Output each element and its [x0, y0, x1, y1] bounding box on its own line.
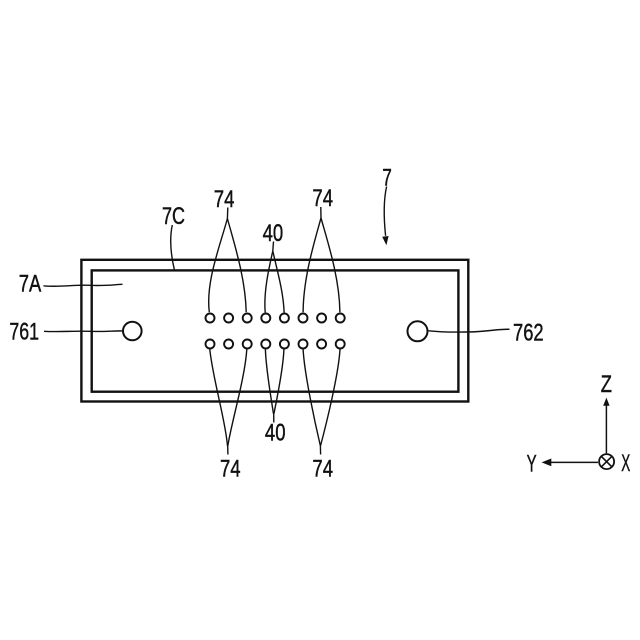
svg-text:7C: 7C: [162, 203, 185, 230]
svg-text:74: 74: [220, 455, 241, 482]
svg-text:7: 7: [382, 164, 392, 191]
svg-text:74: 74: [312, 185, 333, 212]
svg-text:761: 761: [9, 319, 39, 346]
svg-text:40: 40: [263, 220, 284, 247]
svg-text:7A: 7A: [19, 270, 42, 297]
svg-text:X: X: [621, 450, 630, 477]
svg-text:Z: Z: [601, 371, 612, 398]
svg-text:74: 74: [312, 455, 333, 482]
svg-text:40: 40: [265, 419, 286, 446]
svg-text:Y: Y: [527, 450, 537, 477]
svg-text:762: 762: [513, 319, 544, 346]
svg-text:74: 74: [214, 186, 235, 213]
